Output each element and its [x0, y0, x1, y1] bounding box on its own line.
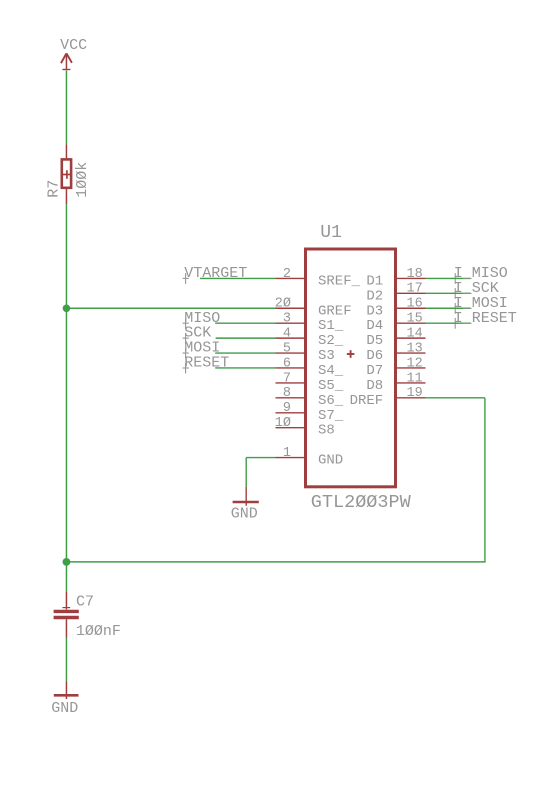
svg-text:D2: D2	[366, 288, 383, 304]
svg-text:D1: D1	[366, 273, 383, 289]
svg-text:5: 5	[283, 341, 291, 356]
svg-text:8: 8	[283, 386, 291, 401]
svg-text:19: 19	[407, 386, 423, 401]
svg-text:9: 9	[283, 401, 291, 416]
svg-text:1Ø: 1Ø	[275, 416, 291, 431]
svg-text:S2_: S2_	[318, 333, 344, 349]
svg-text:14: 14	[407, 327, 423, 342]
svg-text:D4: D4	[366, 318, 383, 334]
svg-text:2Ø: 2Ø	[275, 297, 291, 312]
svg-text:1: 1	[283, 446, 291, 461]
svg-text:6: 6	[283, 356, 291, 371]
svg-text:S6_: S6_	[318, 393, 344, 409]
svg-text:3: 3	[283, 312, 291, 327]
svg-text:2: 2	[283, 267, 291, 282]
svg-text:17: 17	[407, 282, 423, 297]
svg-text:DREF: DREF	[350, 393, 384, 409]
svg-text:D5: D5	[366, 333, 383, 349]
svg-text:11: 11	[407, 371, 423, 386]
svg-text:VCC: VCC	[60, 37, 87, 54]
svg-text:GTL2ØØ3PW: GTL2ØØ3PW	[311, 492, 412, 513]
svg-text:S4_: S4_	[318, 363, 344, 379]
svg-text:GND: GND	[231, 506, 258, 523]
svg-text:C7: C7	[76, 593, 94, 610]
svg-text:SREF_: SREF_	[318, 273, 361, 289]
svg-text:GND: GND	[51, 700, 78, 717]
svg-text:12: 12	[407, 356, 423, 371]
svg-text:R7: R7	[45, 180, 62, 198]
svg-text:U1: U1	[320, 223, 342, 243]
svg-text:13: 13	[407, 341, 423, 356]
svg-text:7: 7	[283, 371, 291, 386]
svg-text:1ØØnF: 1ØØnF	[76, 623, 121, 640]
svg-text:I_RESET: I_RESET	[454, 310, 517, 327]
svg-text:S7_: S7_	[318, 408, 344, 424]
svg-text:D8: D8	[366, 378, 383, 394]
svg-text:D7: D7	[366, 363, 383, 379]
svg-text:S5_: S5_	[318, 378, 344, 394]
svg-text:16: 16	[407, 297, 423, 312]
svg-text:S8: S8	[318, 423, 335, 439]
svg-text:D6: D6	[366, 348, 383, 364]
svg-text:4: 4	[283, 327, 291, 342]
svg-text:VTARGET: VTARGET	[184, 265, 247, 282]
svg-text:S3: S3	[318, 348, 335, 364]
svg-text:15: 15	[407, 312, 423, 327]
svg-text:18: 18	[407, 267, 423, 282]
svg-text:GREF: GREF	[318, 303, 352, 319]
svg-text:1ØØk: 1ØØk	[74, 162, 91, 198]
svg-text:S1_: S1_	[318, 318, 344, 334]
svg-text:D3: D3	[366, 303, 383, 319]
svg-text:GND: GND	[318, 453, 343, 469]
svg-text:RESET: RESET	[184, 355, 229, 372]
